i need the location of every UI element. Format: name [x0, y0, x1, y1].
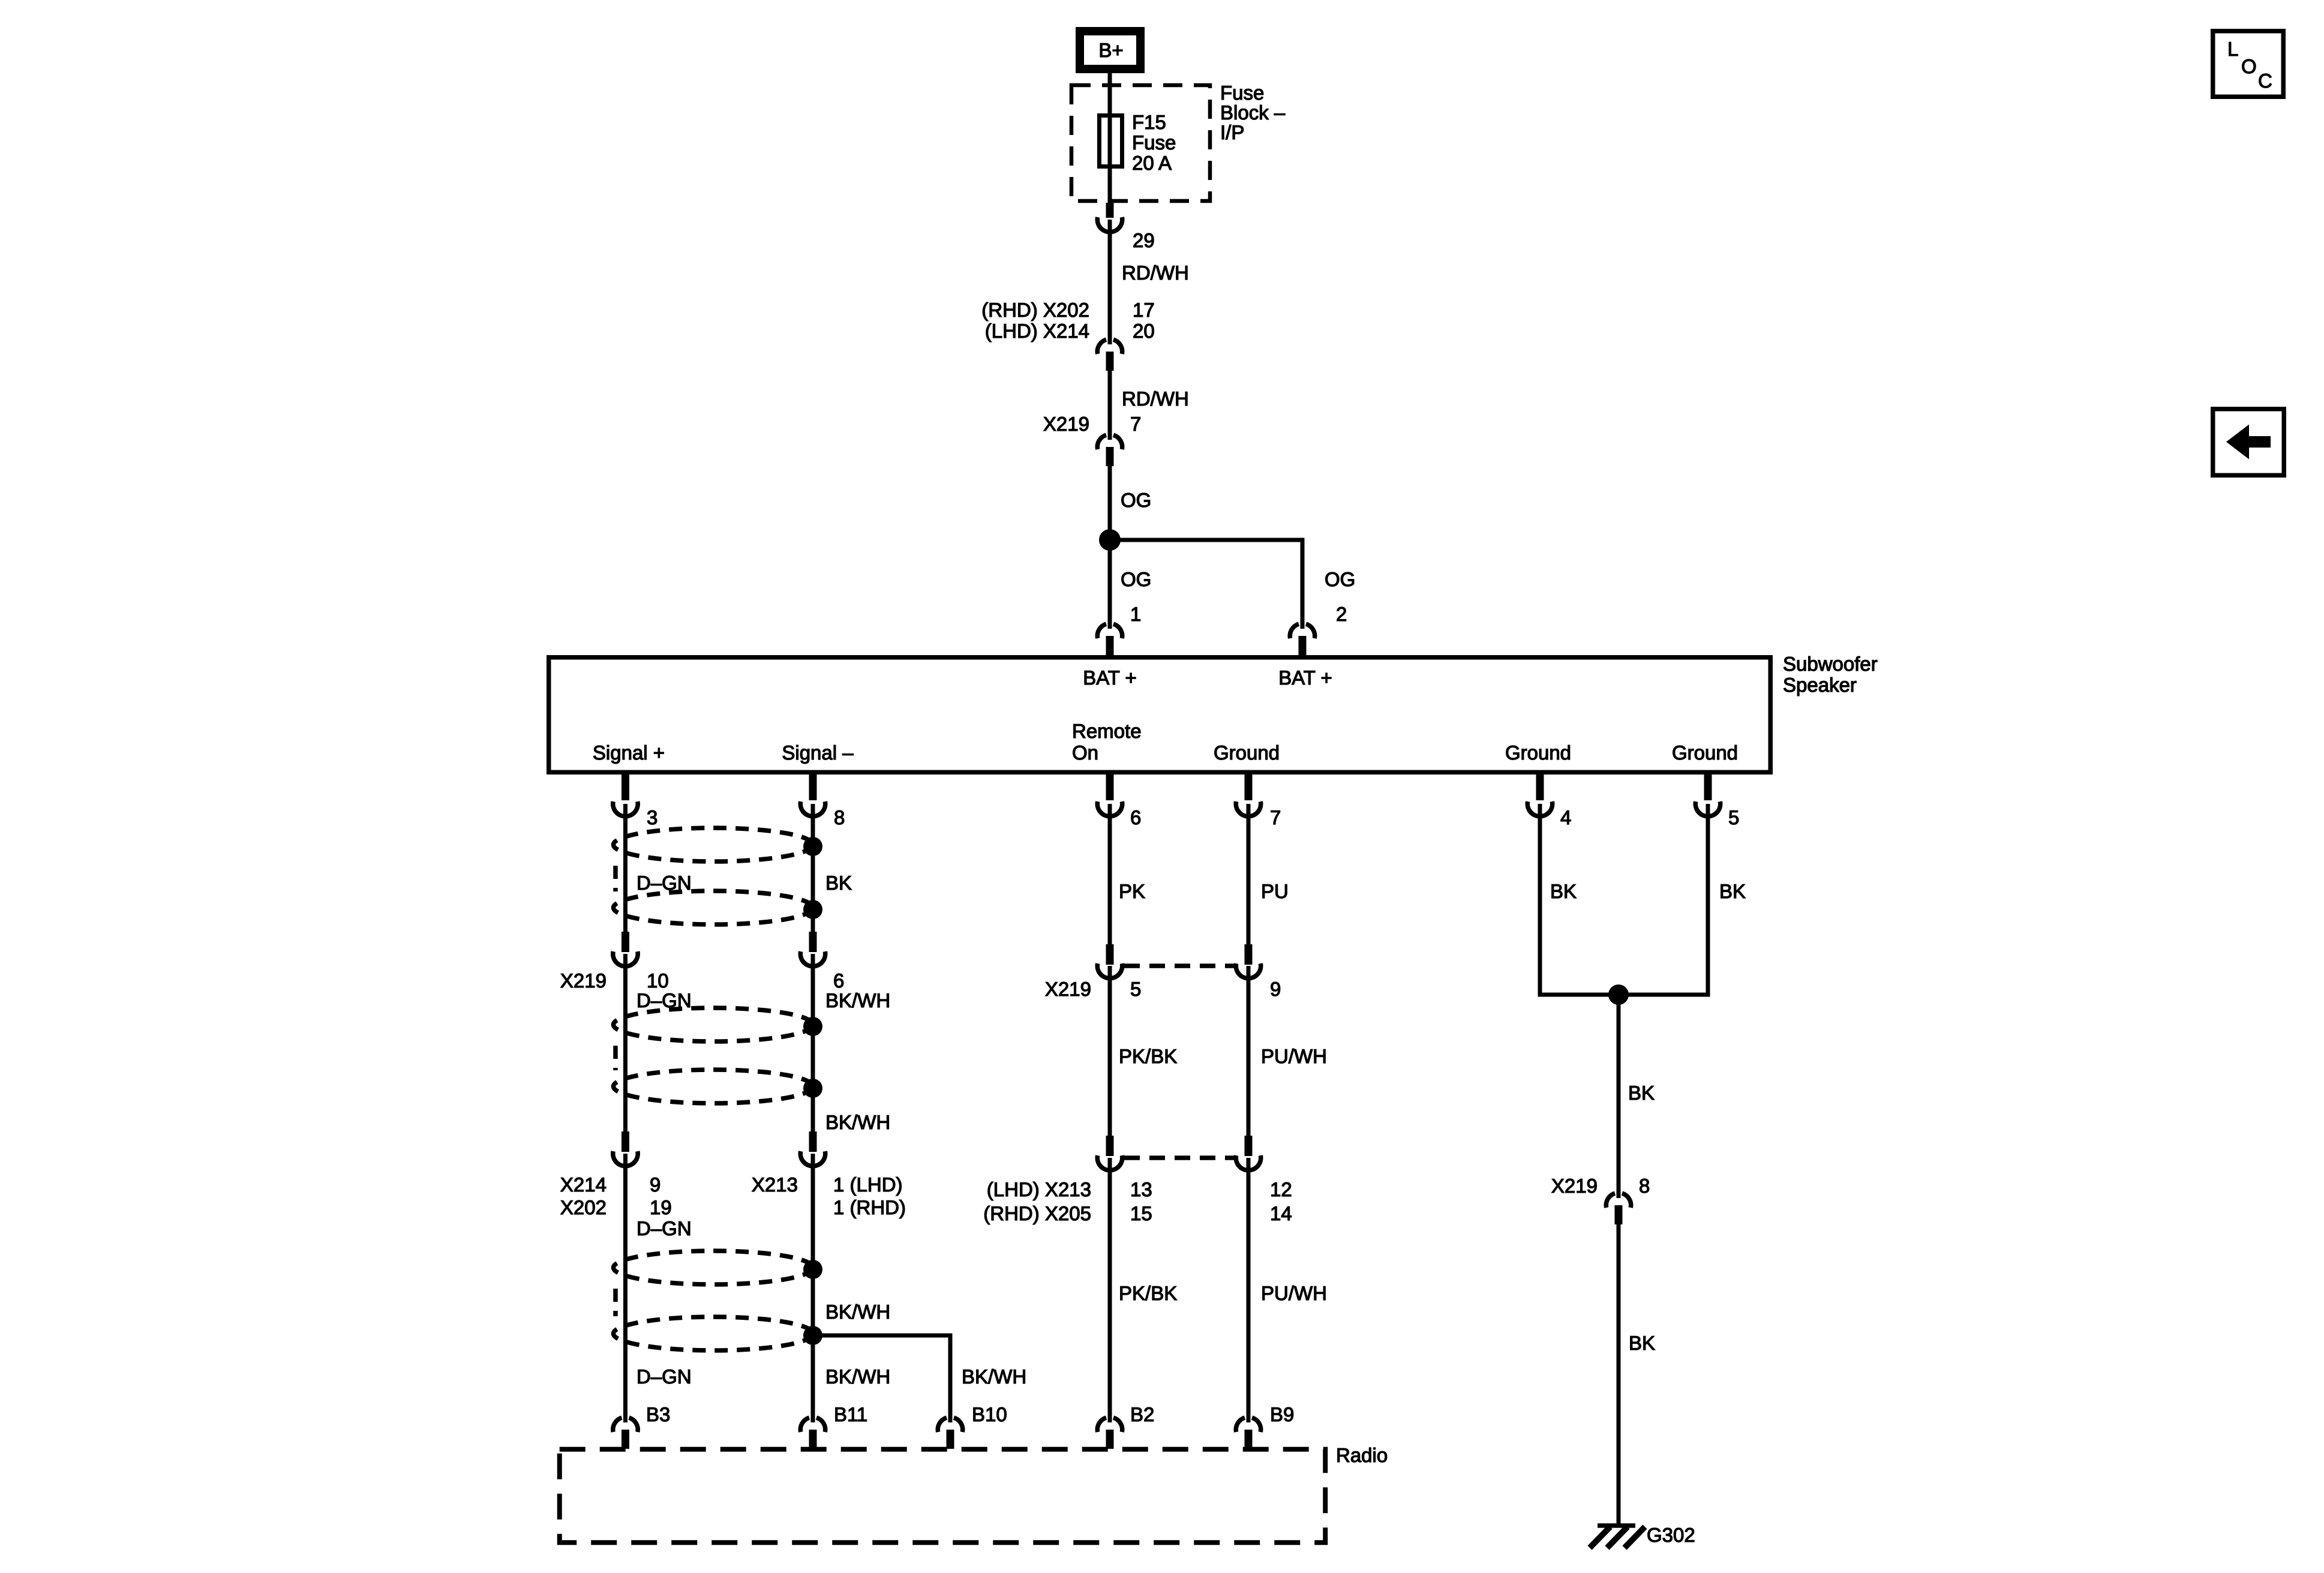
svg-text:29: 29 — [1133, 229, 1155, 251]
svg-text:C: C — [2258, 70, 2272, 92]
svg-text:G302: G302 — [1647, 1524, 1695, 1546]
svg-text:9: 9 — [1270, 978, 1281, 1000]
wire BK down — [1617, 995, 1621, 1198]
svg-text:X202: X202 — [560, 1196, 606, 1218]
subwoofer bottom pin 8 connector — [800, 773, 825, 816]
svg-text:BK: BK — [1629, 1332, 1655, 1354]
wire OG branch right — [1110, 540, 1302, 629]
svg-text:PK/BK: PK/BK — [1119, 1045, 1177, 1067]
subwoofer bottom pin 6 connector — [1097, 773, 1122, 816]
svg-text:9: 9 — [650, 1173, 660, 1196]
svg-text:OG: OG — [1121, 568, 1151, 590]
labels cavity 12/14 — [1270, 1178, 1292, 1224]
svg-text:7: 7 — [1130, 413, 1141, 435]
svg-text:BK/WH: BK/WH — [825, 1301, 890, 1323]
wire PU/WH segment 2 — [1247, 1158, 1251, 1422]
connector X213/X205 cavity 13/15 — [1097, 1136, 1122, 1170]
svg-text:BK/WH: BK/WH — [825, 1111, 890, 1133]
subwoofer bottom pin 7 connector — [1236, 773, 1261, 816]
connector X219 pin 5 — [1097, 944, 1122, 978]
svg-text:Radio: Radio — [1336, 1444, 1388, 1466]
twisted pair bridge 1 — [613, 866, 618, 891]
subwoofer pin 2 connector — [1290, 624, 1314, 656]
fuse F15 symbol — [1100, 115, 1122, 169]
svg-text:BK/WH: BK/WH — [825, 989, 890, 1011]
wire PU/WH segment 1 — [1247, 966, 1251, 1137]
connector X214/X202 labels — [560, 1173, 672, 1218]
wire PU from pin 7 — [1247, 804, 1251, 946]
wire D-GN segment 3 — [623, 1154, 627, 1422]
svg-text:BAT +: BAT + — [1278, 667, 1332, 689]
svg-text:BK: BK — [1628, 1082, 1655, 1104]
connector X219 pin 6 — [800, 932, 825, 966]
wire PK/BK segment 1 — [1108, 966, 1112, 1137]
svg-text:X219: X219 — [1551, 1175, 1598, 1197]
wire BK from pin 5 — [1706, 804, 1710, 997]
twisted pair loop 2a — [614, 1008, 813, 1041]
splice dot pair2 bottom — [803, 1079, 822, 1098]
svg-text:1: 1 — [1130, 603, 1141, 625]
svg-text:B3: B3 — [646, 1403, 670, 1425]
svg-text:Remote: Remote — [1072, 720, 1142, 742]
radio pin B2 connector — [1097, 1418, 1122, 1449]
svg-text:B11: B11 — [834, 1403, 867, 1425]
radio pin B3 connector — [613, 1418, 638, 1449]
svg-text:7: 7 — [1270, 806, 1281, 828]
svg-text:5: 5 — [1728, 806, 1739, 828]
label Subwoofer Speaker — [1783, 653, 1878, 696]
splice dot pair2 top — [803, 1017, 822, 1036]
connector X219 pin 7 — [1097, 435, 1122, 466]
svg-text:BK: BK — [825, 872, 852, 894]
svg-text:PK: PK — [1119, 880, 1145, 902]
subwoofer bottom pin 3 connector — [613, 773, 638, 816]
svg-text:X219: X219 — [1043, 413, 1089, 435]
connector X202/X214 labels — [981, 299, 1154, 342]
svg-text:RD/WH: RD/WH — [1122, 262, 1189, 284]
svg-text:(RHD) X202: (RHD) X202 — [981, 299, 1089, 321]
svg-text:10: 10 — [647, 969, 669, 992]
svg-text:X219: X219 — [1045, 978, 1091, 1000]
svg-text:B10: B10 — [972, 1403, 1007, 1425]
svg-text:L: L — [2227, 38, 2238, 60]
svg-text:PU: PU — [1261, 880, 1289, 902]
svg-text:8: 8 — [1639, 1175, 1650, 1197]
twisted pair loop 3a — [614, 1251, 813, 1284]
svg-text:4: 4 — [1560, 806, 1571, 828]
wire branch to B10 — [813, 1335, 950, 1422]
svg-text:19: 19 — [650, 1196, 672, 1218]
connector X214/X202 cavity 9/19 — [613, 1131, 638, 1166]
splice dot pair1 top — [803, 837, 822, 856]
svg-text:Signal +: Signal + — [593, 742, 665, 764]
back arrow box — [2213, 409, 2284, 476]
connector X213 labels — [752, 1173, 906, 1218]
wire D-GN from pin 3 — [623, 804, 627, 933]
twisted pair bridge 2 — [613, 1046, 618, 1070]
wire PK from pin 6 — [1108, 804, 1112, 946]
fuse block dashed box — [1071, 85, 1210, 201]
wire fuse to connector 29 — [1108, 169, 1112, 204]
connector X219 pin 8 labels — [1551, 1175, 1650, 1197]
svg-text:BK: BK — [1719, 880, 1746, 902]
twisted pair bridge 3 — [613, 1289, 618, 1316]
svg-text:Ground: Ground — [1214, 742, 1280, 764]
radio pin B9 connector — [1236, 1418, 1260, 1449]
wire BK join — [1538, 993, 1710, 997]
svg-text:Fuse: Fuse — [1132, 131, 1176, 154]
twisted pair loop 2b — [614, 1070, 813, 1103]
svg-text:X219: X219 — [560, 969, 606, 992]
svg-text:PK/BK: PK/BK — [1119, 1282, 1177, 1304]
svg-text:15: 15 — [1130, 1202, 1152, 1224]
radio pin B11 connector — [800, 1418, 825, 1449]
junction dot BK splice — [1608, 984, 1629, 1005]
svg-text:PU/WH: PU/WH — [1261, 1045, 1327, 1067]
svg-text:20: 20 — [1133, 320, 1155, 342]
svg-text:X213: X213 — [752, 1173, 798, 1196]
inline connector cavity 29 — [1097, 203, 1122, 232]
LOC reference box — [2213, 31, 2284, 97]
svg-text:(LHD) X214: (LHD) X214 — [985, 320, 1089, 342]
power symbol B+ — [1080, 31, 1140, 69]
connector X219 pin 10 — [613, 932, 638, 966]
svg-text:D–GN: D–GN — [636, 989, 692, 1011]
radio dashed box — [560, 1449, 1326, 1543]
svg-text:D–GN: D–GN — [636, 1365, 692, 1388]
splice dot pair1 bottom — [803, 900, 822, 919]
svg-text:(LHD) X213: (LHD) X213 — [987, 1178, 1091, 1200]
svg-text:BAT +: BAT + — [1083, 667, 1137, 689]
wire D-GN segment 2 — [623, 954, 627, 1133]
svg-text:20 A: 20 A — [1132, 152, 1172, 174]
wire RD/WH segment 1 — [1108, 220, 1112, 344]
wire BK to ground — [1617, 1224, 1621, 1526]
svg-text:I/P: I/P — [1220, 121, 1244, 143]
svg-text:12: 12 — [1270, 1178, 1292, 1200]
subwoofer bottom pin 4 connector — [1527, 773, 1553, 816]
svg-text:Subwoofer: Subwoofer — [1783, 653, 1878, 675]
fuse block label — [1220, 82, 1286, 143]
svg-text:BK: BK — [1550, 880, 1577, 902]
radio pin B10 connector — [938, 1418, 962, 1449]
svg-text:1 (LHD): 1 (LHD) — [833, 1173, 903, 1196]
svg-text:(RHD) X205: (RHD) X205 — [983, 1202, 1091, 1224]
svg-text:D–GN: D–GN — [636, 1217, 692, 1239]
twisted pair loop 3b — [614, 1317, 813, 1350]
connector X202/X214 — [1097, 340, 1122, 371]
connector tie line X213/X205 — [1124, 1155, 1234, 1160]
connector X213 cavity 1 — [800, 1131, 825, 1166]
svg-text:D–GN: D–GN — [636, 872, 692, 894]
ground symbol G302 — [1590, 1526, 1645, 1548]
splice dot pair3 bottom — [803, 1326, 822, 1345]
subwoofer pin 1 connector — [1097, 624, 1122, 656]
svg-text:Block –: Block – — [1220, 101, 1286, 124]
svg-text:14: 14 — [1270, 1202, 1292, 1224]
svg-text:5: 5 — [1130, 978, 1141, 1000]
connector X219-5 labels — [1045, 978, 1141, 1000]
svg-text:Fuse: Fuse — [1220, 82, 1264, 104]
connector tie line X219 — [1124, 963, 1234, 968]
svg-text:2: 2 — [1336, 603, 1347, 625]
subwoofer speaker box — [549, 658, 1771, 773]
svg-text:17: 17 — [1133, 299, 1155, 321]
svg-text:BK/WH: BK/WH — [962, 1365, 1026, 1388]
svg-text:On: On — [1072, 742, 1098, 764]
svg-text:13: 13 — [1130, 1178, 1152, 1200]
wire BK from pin 4 — [1538, 804, 1542, 997]
svg-text:Ground: Ground — [1672, 742, 1738, 764]
wire RD/WH segment 2 — [1108, 371, 1112, 440]
svg-text:BK/WH: BK/WH — [825, 1365, 890, 1388]
svg-text:B9: B9 — [1270, 1403, 1294, 1425]
svg-text:6: 6 — [1130, 806, 1141, 828]
wire B+ to fuse — [1108, 67, 1112, 115]
svg-text:F15: F15 — [1132, 111, 1166, 133]
twisted pair loop 1b — [614, 891, 813, 924]
splice dot pair3 top — [803, 1260, 822, 1279]
subwoofer bottom pin 5 connector — [1695, 773, 1721, 816]
svg-text:6: 6 — [833, 969, 844, 992]
svg-text:O: O — [2241, 55, 2257, 77]
svg-text:RD/WH: RD/WH — [1122, 388, 1189, 410]
fuse F15 value label — [1132, 111, 1176, 174]
svg-text:Ground: Ground — [1505, 742, 1571, 764]
svg-text:Signal –: Signal – — [782, 742, 854, 764]
svg-text:X214: X214 — [560, 1173, 606, 1196]
wire BK/WH segment 1 — [811, 954, 815, 1133]
wire BK/WH segment 3 — [811, 1154, 815, 1422]
wire OG to pin 1 — [1108, 540, 1112, 629]
svg-text:8: 8 — [834, 806, 845, 828]
svg-text:OG: OG — [1121, 489, 1151, 511]
connector X213/X205 cavity 12/14 — [1236, 1136, 1261, 1170]
connector X219 pin 7 labels — [1043, 413, 1141, 435]
junction dot OG splice — [1099, 529, 1121, 551]
svg-text:B2: B2 — [1130, 1403, 1154, 1425]
wire OG segment — [1108, 466, 1112, 540]
svg-text:OG: OG — [1325, 568, 1355, 590]
connector X213/X205 labels — [983, 1178, 1152, 1224]
svg-text:B+: B+ — [1098, 39, 1123, 61]
wire PK/BK segment 2 — [1108, 1158, 1112, 1422]
svg-text:1 (RHD): 1 (RHD) — [833, 1196, 906, 1218]
connector X219 pin 9 — [1236, 944, 1261, 978]
twisted pair loop 1a — [614, 828, 813, 861]
svg-text:3: 3 — [647, 806, 657, 828]
svg-text:Speaker: Speaker — [1783, 674, 1857, 696]
label Remote On — [1072, 720, 1142, 764]
svg-text:PU/WH: PU/WH — [1261, 1282, 1327, 1304]
wire BK from pin 8 — [811, 804, 815, 933]
connector X219-10 labels — [560, 969, 669, 992]
connector X219 pin 8 — [1606, 1193, 1631, 1224]
